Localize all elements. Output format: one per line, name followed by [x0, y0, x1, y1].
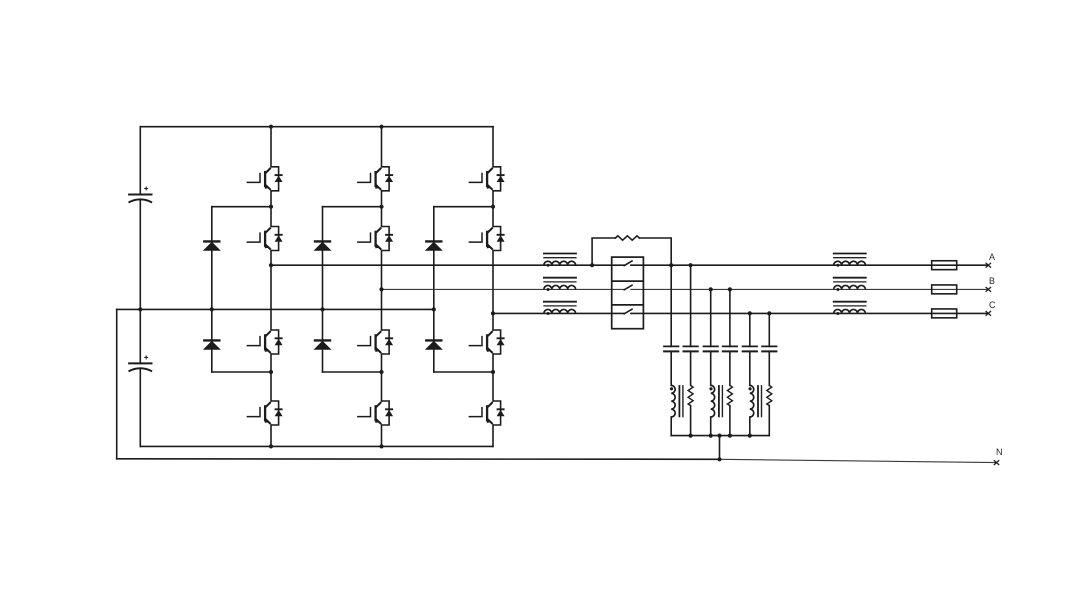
node leg3 lower clamp: [491, 370, 495, 374]
wire branch 1a mid: [670, 351, 672, 385]
contactor K1 box: [612, 257, 644, 329]
inductor L8: [709, 385, 722, 417]
svg-text:C: C: [989, 300, 996, 310]
wire DC cap column middle: [139, 200, 141, 364]
inductor L4: [833, 254, 867, 267]
diode D5: [425, 241, 443, 250]
wire leg3 seg b: [492, 191, 494, 227]
capacitor C6: [722, 346, 738, 351]
diode D3: [314, 241, 332, 250]
node leg3 upper clamp: [491, 205, 495, 209]
transistor Q5: [357, 167, 393, 191]
transistor Q8: [357, 401, 393, 425]
wire top DC+ rail: [140, 126, 493, 128]
wire leg3 seg c: [492, 251, 494, 331]
wire branch 2b top: [729, 289, 731, 346]
svg-text:B: B: [989, 276, 995, 286]
wire leg1 seg c: [270, 251, 272, 331]
svg-text:N: N: [996, 447, 1003, 457]
wire branch 3a bottom: [749, 417, 751, 436]
node bottom rail leg1: [269, 444, 273, 448]
node branch 3b phase: [767, 311, 771, 315]
wire leg1 clamp column: [211, 207, 213, 372]
capacitor C8: [761, 346, 777, 351]
wire bypass right riser: [640, 238, 672, 265]
wire branch 1b top: [690, 265, 692, 346]
wire leg3 seg d: [492, 354, 494, 401]
wire phase C left: [493, 312, 624, 314]
transistor Q9: [469, 167, 505, 191]
inductor L5: [833, 278, 867, 291]
wire leg1 seg e: [270, 425, 272, 446]
node neutral clamp3: [432, 307, 436, 311]
wire bottom DC- rail: [140, 445, 493, 447]
node phase A tap: [269, 263, 273, 267]
wire DC cap column lower: [139, 368, 141, 446]
wire leg2 seg b: [381, 191, 383, 227]
wire branch 2a bottom: [710, 417, 712, 436]
capacitor C1: [128, 187, 152, 203]
inductor L7: [670, 385, 683, 417]
wire phase A left: [271, 264, 624, 266]
wire leg2 clamp bottom link: [323, 371, 382, 373]
transistor Q12: [469, 401, 505, 425]
resistor R2: [688, 385, 693, 405]
node bottom rail leg2: [379, 444, 383, 448]
inductor L1: [543, 254, 577, 267]
wire branch 2a mid: [710, 351, 712, 385]
switch K2 blade: [624, 285, 632, 290]
wire branch 1b mid: [690, 351, 692, 385]
resistor R1: [615, 236, 639, 240]
capacitor C2: [128, 355, 152, 371]
wire phase B left: [382, 288, 625, 290]
wire branch 1a top: [670, 265, 672, 346]
node branch 1b phase: [689, 263, 693, 267]
wire branch 2b mid: [729, 351, 731, 385]
inductor L9: [749, 385, 762, 417]
transistor Q2: [247, 227, 283, 251]
diode D4: [314, 340, 332, 349]
wire branch 3b mid: [768, 351, 770, 385]
node bus 1b: [689, 434, 693, 438]
transistor Q10: [469, 227, 505, 251]
wire leg2 clamp column: [322, 207, 324, 372]
transistor Q7: [357, 330, 393, 354]
node neutral clamp2: [320, 307, 324, 311]
wire leg3 clamp bottom link: [434, 371, 493, 373]
node neutral cap column: [138, 307, 142, 311]
fuse F3: [932, 309, 957, 318]
inductor L6: [833, 302, 867, 315]
terminal N: [994, 460, 999, 465]
transistor Q1: [247, 167, 283, 191]
terminal B: [986, 287, 991, 292]
node bypass right: [669, 263, 673, 267]
terminal C: [986, 311, 991, 316]
wire leg2 seg d: [381, 354, 383, 401]
wire leg2 clamp top link: [323, 206, 382, 208]
wire phase B right: [631, 288, 988, 290]
wire branch 1b bottom: [690, 406, 692, 436]
node top rail leg2: [379, 125, 383, 129]
node N junction: [717, 457, 721, 461]
node branch 3a phase: [748, 311, 752, 315]
svg-text:A: A: [989, 252, 995, 262]
node bus mid: [717, 434, 721, 438]
wire leg1 clamp top link: [212, 206, 271, 208]
wire neutral bus: [117, 308, 434, 310]
diode D1: [203, 241, 221, 250]
transistor Q4: [247, 401, 283, 425]
inductor L3: [543, 302, 577, 315]
wire bank bottom bus: [671, 435, 769, 437]
wire branch 3b top: [768, 313, 770, 346]
node bus 2a: [709, 434, 713, 438]
wire branch 2a top: [710, 289, 712, 346]
resistor R4: [767, 385, 772, 405]
transistor Q6: [357, 227, 393, 251]
node leg1 lower clamp: [269, 370, 273, 374]
fuse F1: [932, 261, 957, 270]
terminal A: [986, 263, 991, 268]
inductor L2: [543, 278, 577, 291]
transistor Q11: [469, 330, 505, 354]
node leg1 upper clamp: [269, 205, 273, 209]
wire N run left: [117, 458, 720, 461]
resistor R3: [727, 385, 732, 405]
wire DC cap column upper: [139, 127, 141, 195]
wire branch 2b bottom: [729, 406, 731, 436]
node bypass left: [590, 263, 594, 267]
node top rail leg1: [269, 125, 273, 129]
wire branch 3a top: [749, 313, 751, 346]
wire phase A right: [631, 264, 988, 266]
node phase B tap: [379, 287, 383, 291]
wire phase C right: [631, 312, 988, 314]
wire bank to N: [719, 436, 721, 460]
capacitor C3: [663, 346, 679, 351]
capacitor C5: [703, 346, 719, 351]
wire leg1 seg a: [270, 127, 272, 167]
capacitor C7: [742, 346, 758, 351]
diode D6: [425, 340, 443, 349]
capacitor C4: [683, 346, 699, 351]
node bus 2b: [728, 434, 732, 438]
wire leg1 seg b: [270, 191, 272, 227]
wire N run right: [720, 459, 997, 462]
wire branch 3a mid: [749, 351, 751, 385]
wire leg2 seg a: [381, 127, 383, 167]
node leg2 upper clamp: [379, 205, 383, 209]
switch K1 blade: [624, 261, 632, 266]
node phase C tap: [491, 311, 495, 315]
wire leg2 seg c: [381, 251, 383, 331]
fuse F2: [932, 285, 957, 294]
wire outer left drop: [116, 309, 118, 458]
transistor Q3: [247, 330, 283, 354]
wire bypass left riser: [592, 238, 615, 265]
wire leg3 clamp top link: [434, 206, 493, 208]
wire leg2 seg e: [381, 425, 383, 446]
wire branch 3b bottom: [768, 406, 770, 436]
node leg2 lower clamp: [379, 370, 383, 374]
wire leg3 seg a: [492, 127, 494, 167]
wire leg1 clamp bottom link: [212, 371, 271, 373]
node bus 3a: [748, 434, 752, 438]
node branch 2b phase: [728, 287, 732, 291]
wire leg1 seg d: [270, 354, 272, 401]
wire leg3 clamp column: [433, 207, 435, 372]
diode D2: [203, 340, 221, 349]
switch K3 blade: [624, 309, 632, 314]
node branch 2a phase: [709, 287, 713, 291]
node neutral clamp1: [210, 307, 214, 311]
wire branch 1a bottom: [670, 417, 672, 436]
wire leg3 seg e: [492, 425, 494, 446]
